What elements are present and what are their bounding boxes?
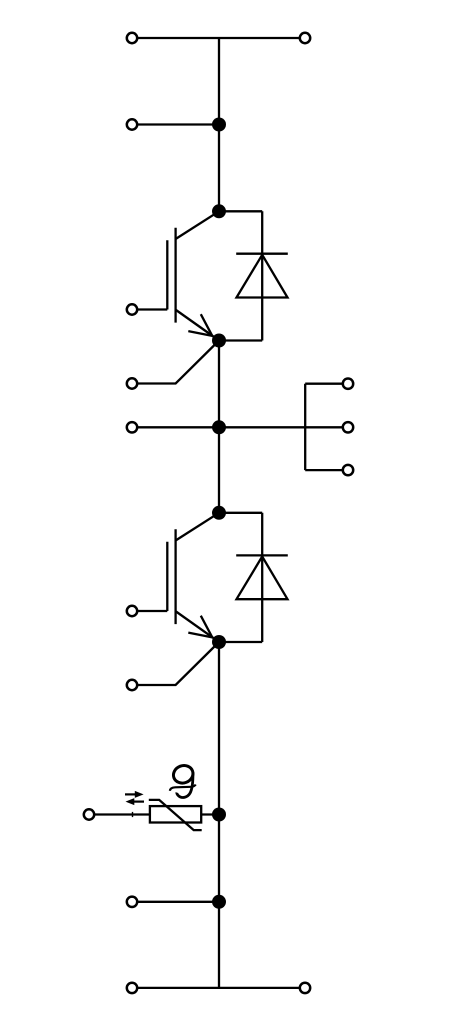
wire AC right bottom stub xyxy=(305,469,348,471)
wire AC right top stub xyxy=(305,383,348,385)
wire diode D2 bottom xyxy=(219,641,262,643)
terminal gate G1 xyxy=(127,304,137,314)
terminal AC right top xyxy=(343,379,353,389)
wire gate lead G1 xyxy=(132,308,167,310)
emitter arrow Q1 xyxy=(188,314,212,336)
terminal DC+ right xyxy=(300,33,310,43)
wire auxiliary emitter lead Q2 xyxy=(132,642,219,685)
terminal DC+ aux xyxy=(127,119,137,129)
wire thermistor left lead xyxy=(89,813,150,815)
junction emitter Q1 xyxy=(212,334,226,348)
terminal aux emitter E2 xyxy=(127,680,137,690)
terminal thermistor xyxy=(84,809,94,819)
terminal gate G2 xyxy=(127,606,137,616)
wire collector lead Q2 xyxy=(176,513,219,541)
transistor Q1 body bar xyxy=(174,228,176,323)
junction collector Q2 xyxy=(212,506,226,520)
wire emitter lead Q1 xyxy=(176,310,219,341)
wire main bus vertical from emitter Q2 to DC- bottom xyxy=(218,642,220,988)
wire main bus vertical from emitter Q1 to collector Q2 xyxy=(218,341,220,513)
wire DC+ auxiliary stub xyxy=(132,123,219,125)
junction collector Q1 xyxy=(212,204,226,218)
transistor Q2 gate bar xyxy=(166,542,168,611)
terminal DC- aux xyxy=(127,897,137,907)
terminal AC left xyxy=(127,422,137,432)
wire diode D1 top xyxy=(219,210,262,212)
junction DC+ aux xyxy=(212,118,226,132)
terminal AC right bottom xyxy=(343,465,353,475)
thermistor R1 body xyxy=(150,806,201,822)
diode D2 cathode bar xyxy=(236,554,288,556)
terminal DC- left xyxy=(127,983,137,993)
wire diode D1 branch vertical xyxy=(261,211,263,340)
terminal aux emitter E1 xyxy=(127,378,137,388)
terminal DC- right xyxy=(300,983,310,993)
junction emitter Q2 xyxy=(212,635,226,649)
terminal DC+ left xyxy=(127,33,137,43)
wire AC output horizontal xyxy=(132,426,348,428)
wire top DC+ bus horizontal xyxy=(132,37,305,39)
transistor Q2 body bar xyxy=(174,529,176,624)
wire emitter lead Q2 xyxy=(176,612,219,643)
wire main bus vertical from top bus to collector Q1 xyxy=(218,38,220,211)
junction AC node xyxy=(212,420,226,434)
wire DC- auxiliary stub xyxy=(132,901,219,903)
wire collector lead Q1 xyxy=(176,211,219,239)
thermistor R1 diagonal stroke xyxy=(149,800,202,830)
node tick on thermistor lead xyxy=(132,812,134,817)
terminal AC right middle xyxy=(343,422,353,432)
diode D1 cathode bar xyxy=(236,253,288,255)
wire AC right bus vertical xyxy=(304,384,306,470)
wire gate lead G2 xyxy=(132,610,167,612)
wire diode D2 top xyxy=(219,512,262,514)
transistor Q1 gate bar xyxy=(166,240,168,309)
thermistor current arrows xyxy=(125,791,144,805)
wire diode D2 branch vertical xyxy=(261,513,263,642)
wire auxiliary emitter lead Q1 xyxy=(132,341,219,384)
wire diode D1 bottom xyxy=(219,339,262,341)
diode D2 triangle xyxy=(237,557,288,600)
junction DC- aux xyxy=(212,895,226,909)
label theta on thermistor xyxy=(170,763,196,798)
wire bottom DC- bus horizontal xyxy=(132,987,305,989)
diode D1 triangle xyxy=(237,255,288,298)
emitter arrow Q2 xyxy=(188,616,212,638)
junction thermistor node xyxy=(212,808,226,822)
wire thermistor right lead xyxy=(201,813,219,815)
